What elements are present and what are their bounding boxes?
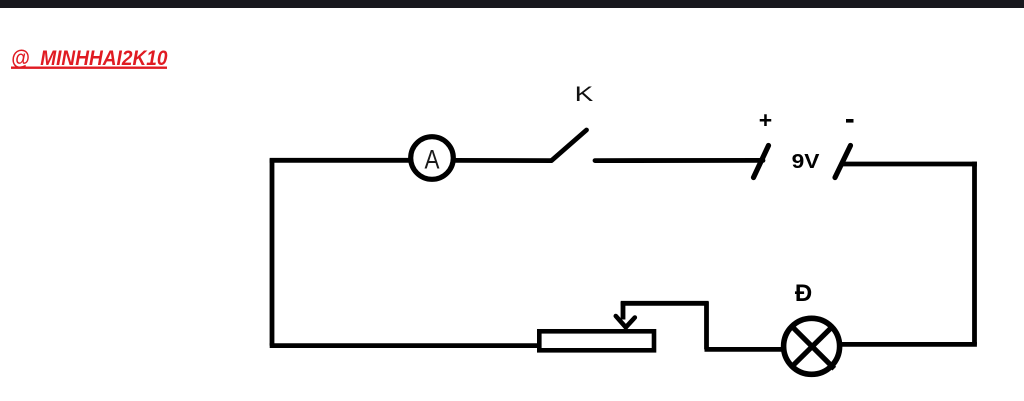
- rheostat body rectangle: [539, 331, 654, 350]
- rheostat wiper arrowhead left arm: [616, 316, 626, 327]
- rheostat wiper shaft: [621, 302, 626, 320]
- wire: top left horizontal: [270, 158, 409, 163]
- switch K blade: [552, 130, 587, 161]
- wire: right vertical: [972, 162, 977, 345]
- wire: jog to lamp: [705, 347, 784, 352]
- battery positive terminal slash: [754, 146, 769, 178]
- svg-text:9V: 9V: [792, 149, 820, 173]
- wire: bottom left horizontal: [270, 343, 539, 348]
- wire: jog vertical down: [704, 302, 709, 350]
- svg-text:Đ: Đ: [795, 280, 812, 307]
- svg-text:A: A: [425, 145, 440, 175]
- svg-text:+: +: [759, 107, 772, 133]
- rheostat wiper arrowhead right arm: [626, 318, 635, 328]
- wire: left vertical: [270, 159, 275, 346]
- wire: jog horizontal over rheostat: [621, 301, 709, 306]
- ammeter A1 circle: [411, 137, 454, 180]
- wire: switch to battery: [595, 158, 763, 163]
- lamp D cross stroke 1: [790, 325, 834, 369]
- wire: bottom right horizontal: [841, 342, 977, 347]
- top shadow bar: [0, 0, 1024, 8]
- battery negative terminal slash: [835, 146, 851, 178]
- lamp D cross stroke 2: [791, 325, 834, 367]
- wire: ammeter to switch: [456, 158, 553, 163]
- svg-text:K: K: [575, 82, 594, 106]
- battery - label: [846, 119, 854, 123]
- watermark text @ MINHHAI2K10: [11, 46, 168, 70]
- wire: battery to top right corner: [842, 162, 977, 167]
- svg-text:@ MINHHAI2K10: @ MINHHAI2K10: [11, 46, 168, 70]
- lamp D circle: [784, 318, 840, 374]
